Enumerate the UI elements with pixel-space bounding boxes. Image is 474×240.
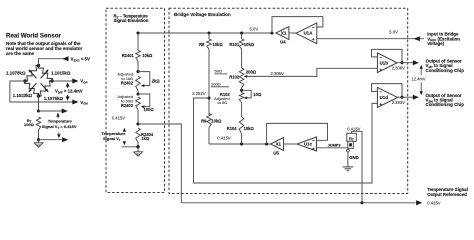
svg-text:10kΩ: 10kΩ — [211, 118, 222, 123]
wire R2401 top — [137, 33, 139, 51]
op-amp U1A — [296, 23, 317, 44]
arrow 12.4mV down — [420, 82, 422, 93]
node U1b out — [400, 61, 403, 64]
feedback U1A — [272, 17, 323, 33]
dashed box RT temperature signal emulation — [106, 8, 165, 192]
node dots on bridge — [37, 64, 40, 67]
svg-text:−: − — [379, 90, 382, 95]
resistor R2401 — [136, 51, 141, 62]
buffer X1 U5 — [271, 138, 284, 151]
arrow up VT temp — [123, 128, 126, 132]
node temp rail jumper — [360, 201, 363, 204]
svg-text:are the same: are the same — [6, 51, 35, 56]
jumper pin GND — [347, 149, 350, 152]
feedback U1b — [372, 49, 403, 62]
arrow VON — [72, 100, 78, 105]
arrow tap gnd ref — [62, 137, 68, 142]
ground jumper — [343, 166, 354, 168]
wire R101 top — [241, 33, 243, 39]
dashed box bridge voltage emulation — [169, 8, 408, 193]
wire R104 bottom — [241, 134, 243, 144]
svg-text:200Ω: 200Ω — [246, 70, 257, 75]
variable arrow bottom-right arm — [41, 83, 49, 92]
wire VEXC — [39, 59, 68, 66]
wire RT to gnd — [38, 130, 40, 140]
node rail R101 — [240, 31, 243, 34]
node RT bottom — [37, 138, 40, 141]
resistor R8 — [207, 39, 212, 49]
arrow VBP out — [413, 60, 419, 65]
svg-text:R102: R102 — [229, 75, 240, 80]
svg-text:U4: U4 — [280, 40, 286, 45]
node VT — [136, 122, 139, 125]
resistor R101 — [239, 39, 244, 49]
wire temperature output rail — [181, 202, 415, 204]
pot R103 loop — [242, 90, 252, 98]
node R2403 top — [136, 92, 139, 95]
pot R2403 loop — [138, 94, 150, 107]
svg-text:10Ω: 10Ω — [253, 92, 262, 97]
svg-text:+: + — [312, 37, 315, 42]
node rail R8 — [207, 31, 210, 34]
svg-text:1kΩ: 1kΩ — [141, 136, 150, 141]
wire tap gnd ref — [39, 139, 64, 141]
svg-text:U5: U5 — [273, 150, 279, 155]
svg-text:Conditioning Chip: Conditioning Chip — [426, 68, 465, 73]
feedback U1d — [372, 84, 403, 98]
wire bridge bottom rail — [209, 143, 271, 145]
wire R9 bottom — [208, 128, 210, 145]
arrow 12.4mV up — [420, 67, 422, 76]
wire jumper to gnd — [347, 152, 349, 167]
arrow VBN out — [413, 95, 419, 100]
svg-text:12.4mV: 12.4mV — [412, 76, 426, 81]
wire bridge bottom — [38, 96, 40, 111]
wire R2401-R2402 — [137, 61, 139, 72]
pot R2402 loop — [138, 72, 150, 86]
svg-text:1.1075kΩ: 1.1075kΩ — [44, 96, 64, 101]
svg-text:Voltage): Voltage) — [427, 41, 445, 46]
svg-text:to 5Ω: to 5Ω — [218, 100, 228, 105]
wire rail from temp box — [138, 32, 209, 34]
svg-text:Output Referenced: Output Referenced — [427, 192, 467, 197]
svg-text:Signal Emulation: Signal Emulation — [114, 18, 149, 23]
svg-text:+: + — [379, 67, 382, 72]
svg-text:5.0V: 5.0V — [250, 27, 259, 32]
svg-text:Temperature: Temperature — [48, 118, 73, 123]
svg-text:U1d: U1d — [380, 95, 389, 100]
arrow tap VT — [62, 109, 68, 114]
node U1d out — [400, 96, 403, 99]
wire R101-R102 — [241, 49, 243, 68]
wire R2402-R2403 — [137, 91, 139, 95]
ground temp box — [134, 152, 143, 156]
feedback U1c — [267, 123, 328, 144]
node U5 out — [265, 142, 268, 145]
svg-text:2.292V: 2.292V — [192, 91, 205, 96]
svg-text:0.415V: 0.415V — [112, 115, 125, 120]
svg-text:X1: X1 — [275, 142, 281, 147]
svg-text:100Ω: 100Ω — [24, 122, 35, 127]
arrow down VT temp — [123, 141, 125, 143]
node R2402 top — [136, 70, 139, 73]
svg-text:+: + — [312, 146, 315, 151]
wire R103-R104 — [241, 103, 243, 118]
node U4 out — [270, 31, 273, 34]
bracket 100 ohm — [211, 86, 229, 88]
wire U1b out — [397, 62, 413, 64]
svg-text:−: − — [312, 25, 315, 30]
resistor R2404 — [136, 128, 141, 143]
resistor R9 — [207, 114, 212, 128]
svg-text:R2403: R2403 — [121, 103, 134, 108]
wire U1c plus to jumper — [317, 147, 348, 149]
svg-text:U1b: U1b — [380, 61, 389, 66]
svg-text:10kΩ: 10kΩ — [244, 126, 255, 131]
svg-text:1.1015kΩ: 1.1015kΩ — [51, 71, 71, 76]
svg-text:10kΩ: 10kΩ — [213, 42, 224, 47]
op-amp U1d — [377, 87, 397, 107]
wire VON route — [10, 81, 78, 102]
svg-text:2.305V: 2.305V — [271, 71, 284, 76]
svg-text:100Ω: 100Ω — [211, 81, 221, 86]
svg-text:2.292V: 2.292V — [392, 100, 405, 105]
resistor R2402 — [136, 76, 141, 91]
node temp rail — [136, 31, 139, 34]
svg-text:−: − — [312, 138, 315, 143]
svg-text:5.0V: 5.0V — [389, 30, 398, 35]
resistor RT box — [347, 133, 357, 141]
svg-text:1.1078kΩ: 1.1078kΩ — [6, 71, 26, 76]
svg-text:U1A: U1A — [304, 30, 314, 35]
node RT top — [37, 109, 40, 112]
svg-text:GND: GND — [349, 155, 358, 160]
wire U4-U1A — [289, 32, 298, 34]
wiper R102 — [244, 75, 247, 78]
node R104 bottom — [240, 142, 243, 145]
svg-text:2.306V: 2.306V — [392, 65, 405, 70]
node R103 top — [240, 89, 243, 92]
resistor RT sensor — [36, 117, 40, 130]
sensor bridge resistor bottom-left — [25, 81, 39, 96]
op-amp U1b — [377, 53, 397, 73]
wire RT to 0.415V rail — [352, 131, 363, 203]
svg-text:R9: R9 — [201, 118, 207, 123]
svg-text:10kΩ: 10kΩ — [244, 42, 255, 47]
op-amp U1c — [297, 137, 317, 151]
svg-text:2kΩ: 2kΩ — [152, 78, 161, 83]
buffer X1 U4 — [276, 27, 289, 40]
svg-text:0.415V: 0.415V — [427, 200, 440, 205]
svg-text:R101: R101 — [229, 42, 240, 47]
ground sensor — [38, 140, 40, 143]
node 2.292V — [207, 96, 210, 99]
arrow VEXC into bridge — [414, 36, 420, 41]
wire R2404 gnd — [137, 143, 139, 152]
wire VOP — [52, 80, 78, 82]
svg-text:Conditioning Chip: Conditioning Chip — [426, 102, 465, 107]
arrow VOP — [72, 79, 78, 84]
svg-text:R2402: R2402 — [121, 81, 134, 86]
wire top rail — [209, 32, 272, 34]
svg-text:50Ω: 50Ω — [215, 69, 222, 74]
resistor R103 — [239, 93, 244, 103]
svg-text:R2401: R2401 — [122, 53, 135, 58]
wire U1d out — [396, 96, 413, 98]
svg-text:X1: X1 — [281, 31, 287, 36]
arrow down to VON line — [67, 95, 69, 99]
variable arrow top-left arm — [29, 70, 37, 79]
arrow temperature out — [416, 200, 422, 205]
arrow down VT annotation — [58, 132, 60, 134]
svg-text:0.415V: 0.415V — [217, 135, 230, 140]
sensor bridge resistor bottom-right — [39, 81, 53, 96]
wire tap VT — [39, 110, 63, 112]
svg-text:R8: R8 — [199, 42, 205, 47]
svg-text:−: − — [379, 55, 382, 60]
jumper JUMP3 shunt — [348, 141, 354, 148]
svg-text:Real World Sensor: Real World Sensor — [6, 33, 61, 40]
svg-text:JUMP3: JUMP3 — [328, 143, 342, 148]
variable arrow top-right arm — [41, 70, 49, 79]
resistor R104 — [239, 117, 244, 134]
wire R102-R103 — [241, 88, 243, 93]
wire R8 top — [208, 33, 210, 39]
arrow VEXC input — [62, 56, 68, 61]
wire R2403 to node — [137, 110, 139, 124]
sensor bridge resistor top-right — [38, 66, 52, 82]
wire U5-U1c — [284, 143, 298, 145]
wire R8-R9 — [208, 49, 210, 115]
svg-text:R104: R104 — [227, 126, 238, 131]
wire U1A plus VEXC — [317, 38, 424, 40]
arrow up VT annotation — [56, 113, 59, 117]
bracket 50 ohm — [215, 73, 228, 75]
svg-text:100Ω: 100Ω — [144, 107, 155, 112]
svg-text:10kΩ: 10kΩ — [142, 53, 153, 58]
svg-text:1.1023kΩ: 1.1023kΩ — [13, 93, 33, 98]
resistor R2403 — [136, 97, 141, 110]
svg-text:+: + — [379, 102, 382, 107]
variable arrow bottom-left arm — [29, 83, 37, 92]
sensor bridge resistor top-left — [25, 65, 39, 81]
wire 2.292V to U1d — [194, 98, 378, 183]
arrow up to VOP line — [67, 84, 69, 88]
svg-text:Bridge Voltage Emulation: Bridge Voltage Emulation — [174, 12, 231, 17]
svg-text:0.415V: 0.415V — [347, 127, 360, 132]
wire VT out — [138, 124, 181, 203]
resistor R102 — [239, 68, 244, 88]
